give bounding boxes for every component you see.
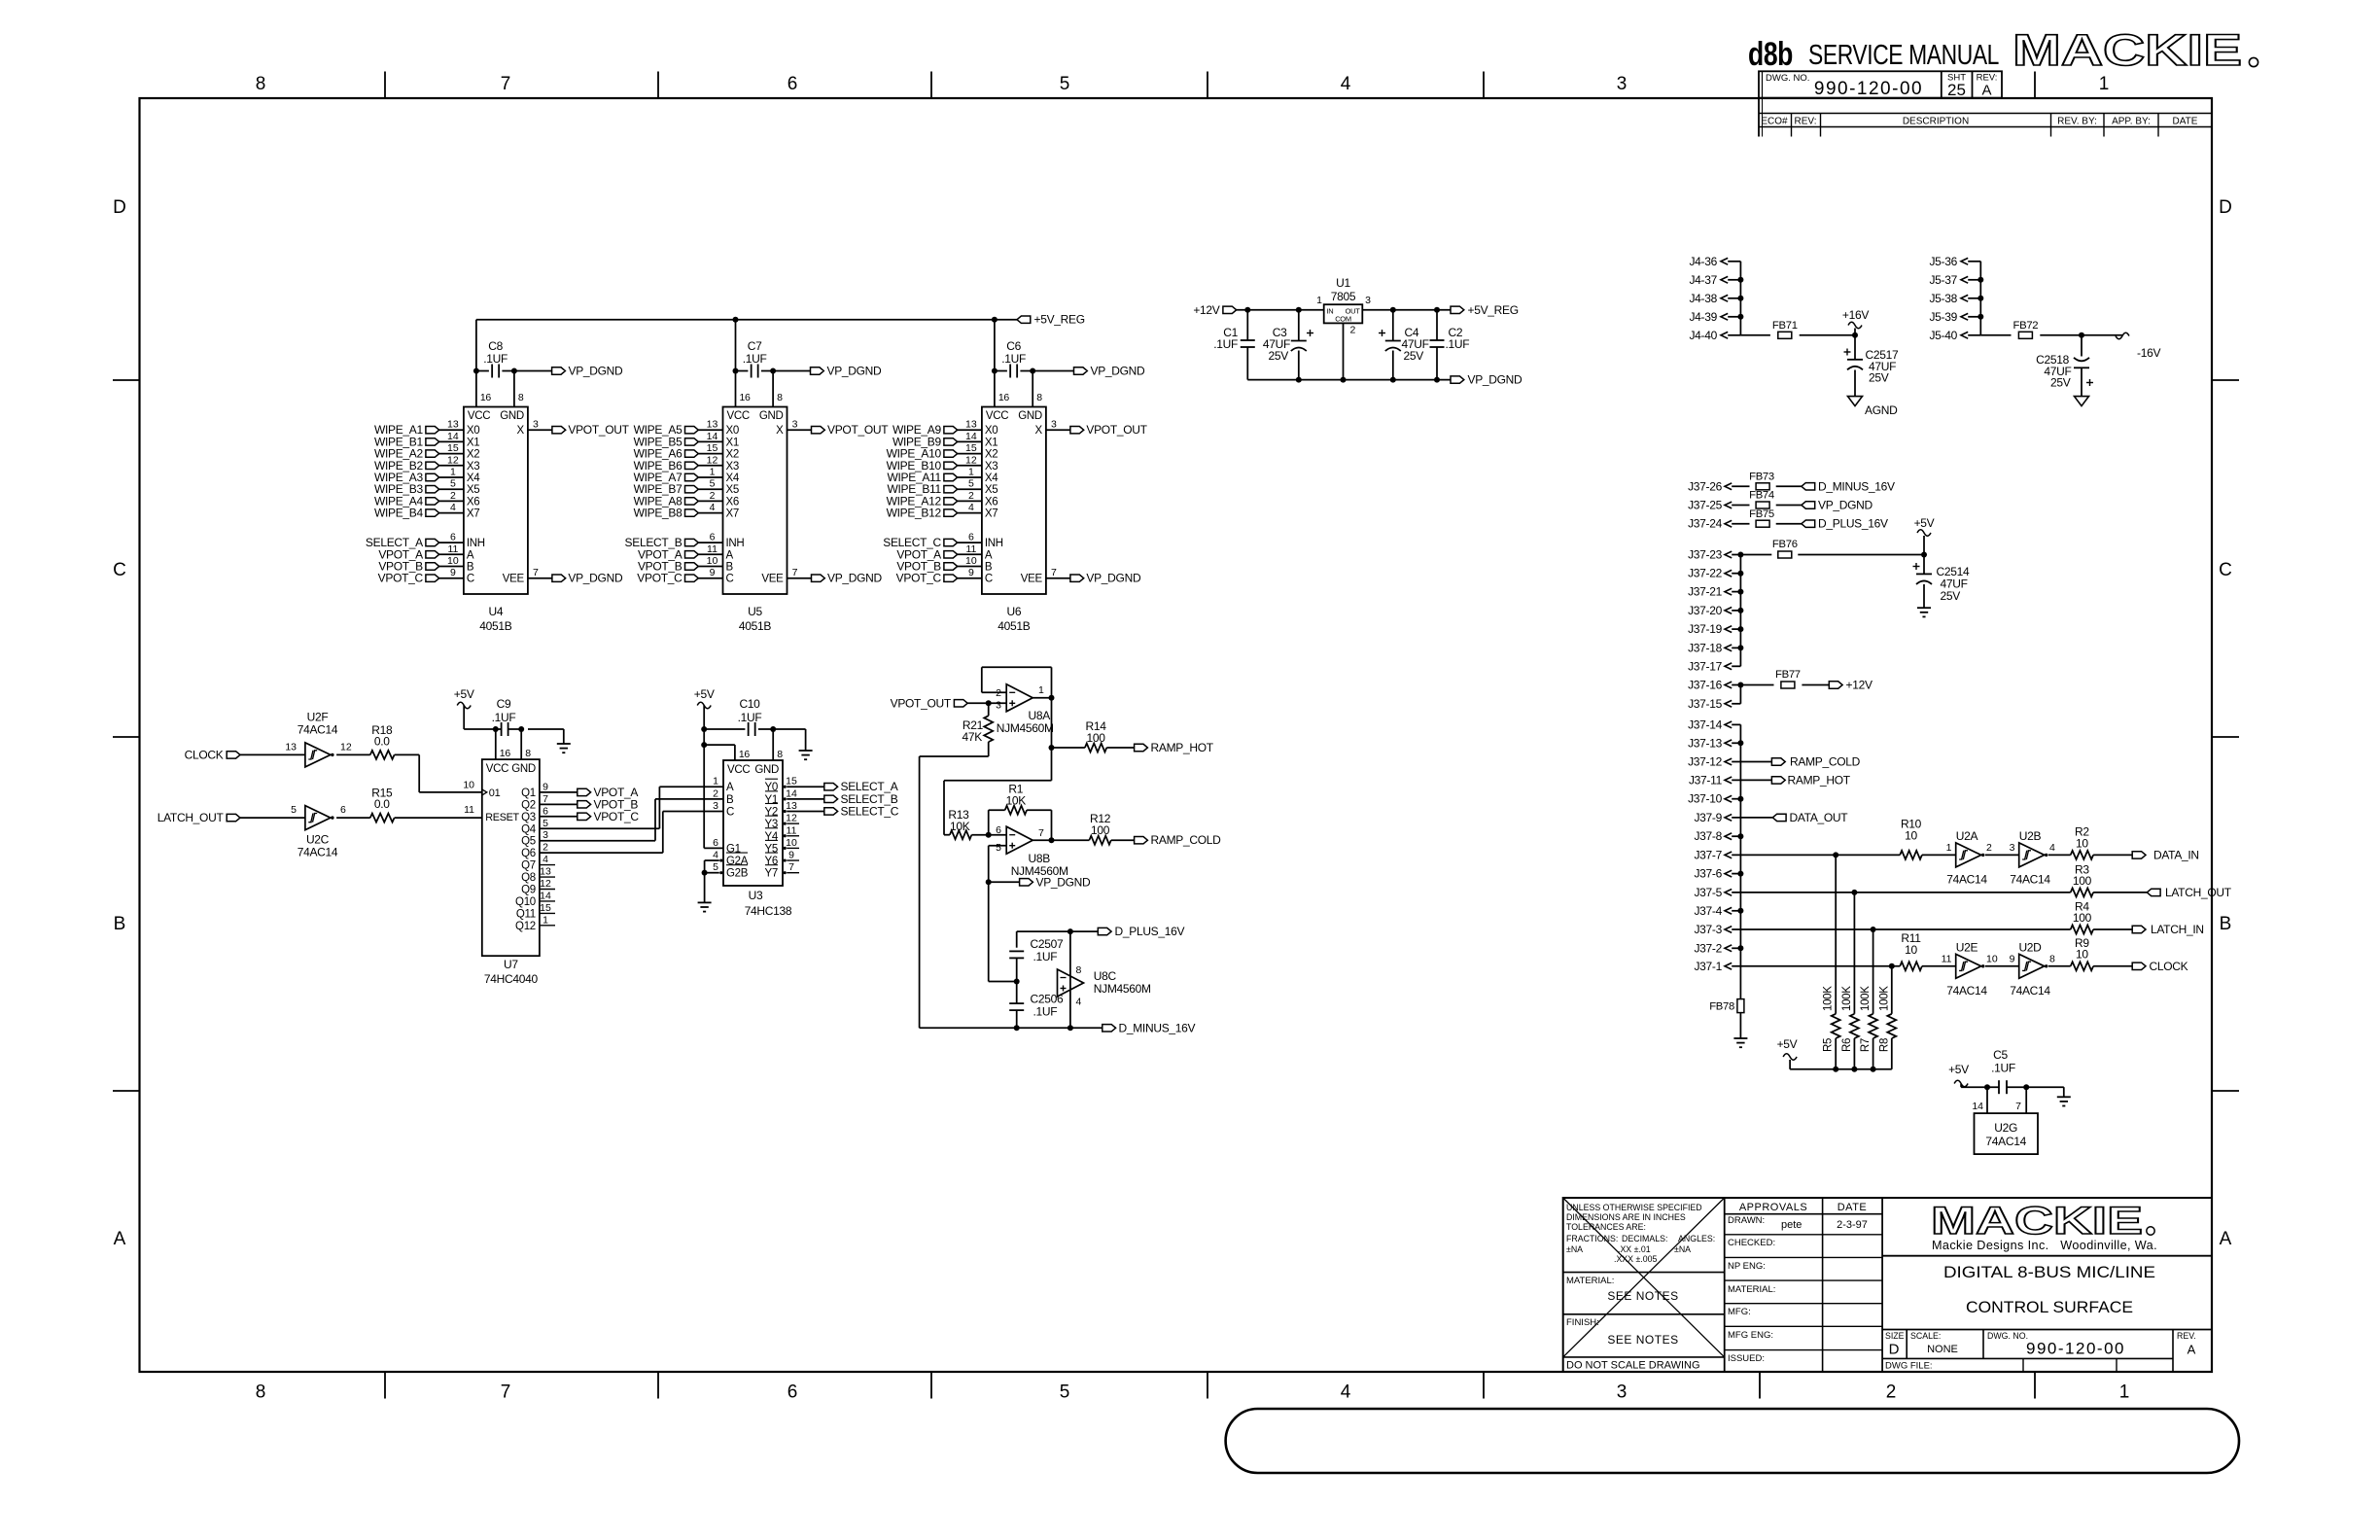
svg-text:REV. BY:: REV. BY: [2057,117,2097,127]
svg-text:U6: U6 [1007,605,1022,618]
node VP_DGND tag at C7 [773,370,810,372]
svg-text:X0: X0 [726,425,739,437]
svg-text:1: 1 [968,467,974,478]
wire U1 OUT to +5V_REG [1362,309,1451,311]
svg-text:6: 6 [542,805,548,817]
node RAMP_COLD tag [1111,839,1135,841]
svg-text:X3: X3 [467,461,479,472]
regulator U1 7805 [1324,304,1363,323]
junction at U2G pin7 [2023,1084,2029,1090]
svg-text:15: 15 [965,442,977,454]
node RAMP_HOT tag at J37-11 [1732,779,1771,781]
svg-text:10K: 10K [1006,794,1027,808]
svg-text:J37-22: J37-22 [1688,567,1723,580]
wire U8A out to RAMP_HOT and R13 [1051,698,1053,781]
svg-text:FB76: FB76 [1772,539,1798,550]
wire U3 G1 to +5V [704,847,723,849]
svg-text:7: 7 [792,567,798,578]
node D_MINUS_16V tag [1102,1025,1116,1032]
svg-text:IN: IN [1327,307,1334,316]
svg-text:25: 25 [1947,81,1966,99]
ground at FB78 [1739,1012,1741,1038]
svg-text:2-3-97: 2-3-97 [1837,1219,1868,1231]
svg-text:11: 11 [1942,953,1952,964]
svg-text:INH: INH [467,538,485,549]
svg-text:4051B: 4051B [997,619,1030,633]
svg-text:VP_DGND: VP_DGND [827,365,883,378]
svg-text:Q7: Q7 [521,860,536,872]
svg-text:Y7: Y7 [765,868,778,880]
svg-text:47K: 47K [962,730,983,744]
svg-text:8: 8 [256,74,266,94]
svg-text:4051B: 4051B [479,619,511,633]
svg-text:1: 1 [1038,684,1044,696]
capacitor C6 [995,370,1007,372]
svg-text:C: C [2219,560,2232,580]
svg-text:1: 1 [2119,1382,2130,1403]
svg-text:4: 4 [710,502,716,513]
svg-text:DECIMALS:: DECIMALS: [1622,1234,1667,1243]
node D_PLUS_16V tag [1098,927,1111,934]
svg-text:MATERIAL:: MATERIAL: [1728,1284,1775,1295]
svg-text:7: 7 [542,793,548,805]
svg-text:VP_DGND: VP_DGND [1818,499,1873,512]
resistor R11 10 [1900,962,1922,970]
junction at R8 column [1889,963,1895,969]
svg-text:Q8: Q8 [521,872,536,884]
svg-text:FRACTIONS:: FRACTIONS: [1566,1234,1618,1243]
wire U8B pin5 to VP_DGND [989,845,1006,847]
wire LATCH_OUT to U2C [240,817,305,819]
svg-text:VCC: VCC [727,410,750,422]
capacitor C2 [1436,310,1438,340]
svg-text:5: 5 [713,861,718,873]
svg-text:990-120-00: 990-120-00 [1814,79,1923,99]
resistor R15 0.0 [336,817,370,819]
capacitor C8 [476,370,489,372]
svg-text:J37-18: J37-18 [1688,641,1723,654]
svg-text:3: 3 [792,419,798,431]
revision table header [1758,98,1760,137]
svg-text:6: 6 [450,532,456,543]
svg-text:15: 15 [707,442,718,454]
svg-text:NJM4560M: NJM4560M [997,721,1054,735]
svg-text:D: D [1889,1342,1900,1358]
svg-text:100: 100 [2073,874,2092,888]
gate U2G 74AC14 power [1986,1087,1988,1113]
svg-text:U2A: U2A [1956,829,1978,843]
junction +5V_REG at U6 [992,317,997,323]
svg-text:GND: GND [1018,410,1042,422]
svg-text:0.0: 0.0 [374,797,390,811]
svg-text:INH: INH [985,538,1003,549]
svg-text:DATE: DATE [1837,1202,1868,1213]
junction at U8B pin6 [986,832,992,838]
svg-text:B: B [985,562,993,574]
svg-text:8: 8 [777,392,783,403]
wire U7 Q6 to U3 C [540,852,663,854]
junction at U8C V- [1067,1025,1073,1031]
resistor R14 100 [1052,747,1085,749]
wire +5V to C5 and U2G [1961,1086,1999,1088]
svg-text:DIGITAL 8-BUS MIC/LINE: DIGITAL 8-BUS MIC/LINE [1943,1263,2155,1281]
svg-text:D: D [113,197,126,218]
node VP_DGND tag at U8B [989,881,1020,883]
node RAMP_COLD tag at J37-12 [1732,761,1771,763]
svg-text:SERVICE MANUAL: SERVICE MANUAL [1808,40,1999,71]
bottom cartouche [1226,1409,2239,1473]
svg-text:+16V: +16V [1842,308,1869,322]
svg-text:4: 4 [450,502,456,513]
svg-text:B: B [726,562,734,574]
svg-text:CHECKED:: CHECKED: [1728,1238,1775,1248]
svg-text:X: X [1035,425,1043,437]
svg-text:Y5: Y5 [765,843,778,855]
svg-text:2: 2 [1986,842,1992,854]
svg-text:12: 12 [447,454,459,466]
svg-text:CLOCK: CLOCK [2150,960,2188,973]
svg-text:.XXX ±.005: .XXX ±.005 [1614,1254,1658,1264]
wire U7 Q5 to U3 B [540,840,655,842]
svg-text:J4-38: J4-38 [1689,292,1717,305]
svg-text:VPOT_C: VPOT_C [896,572,942,585]
svg-text:A: A [2220,1229,2232,1249]
svg-text:U2D: U2D [2018,941,2042,955]
resistor R2 10 [2048,854,2071,856]
svg-text:J37-2: J37-2 [1694,941,1722,955]
svg-text:9: 9 [968,567,974,578]
svg-text:J37-21: J37-21 [1688,585,1723,599]
svg-text:2: 2 [710,490,716,502]
wire D_MINUS_16V rail [920,1027,1102,1029]
junction at R21 top [986,700,992,706]
svg-text:R5: R5 [1823,1038,1835,1052]
svg-text:1: 1 [713,776,718,787]
node DATA_OUT tag at J37-9 [1732,817,1772,819]
svg-text:C: C [985,574,993,585]
svg-text:D_PLUS_16V: D_PLUS_16V [1115,925,1185,938]
junction +5V_REG at U5 [733,317,739,323]
svg-text:J37-1: J37-1 [1694,960,1722,973]
svg-text:AGND: AGND [1865,403,1898,417]
power symbol +5V at pull-ups [1789,1060,1791,1069]
svg-text:1: 1 [2099,74,2110,94]
wire U7 Q3 to VPOT_C [540,816,577,818]
svg-text:4: 4 [1076,997,1082,1008]
junction at R7 column [1871,927,1876,932]
svg-text:-16V: -16V [2137,346,2160,360]
svg-text:Y1: Y1 [765,794,778,806]
analog mux U4 4051B [464,407,528,595]
svg-text:X7: X7 [985,508,997,520]
resistor R1 10K feedback [988,810,990,835]
node DATA_IN tag [2093,854,2132,856]
svg-text:FB77: FB77 [1775,669,1801,681]
resistor R13 10K [950,830,972,839]
ground at C9 [563,729,565,744]
svg-text:74AC14: 74AC14 [2010,984,2050,997]
svg-text:13: 13 [707,419,718,431]
svg-text:U1: U1 [1336,276,1350,290]
capacitor C7 [736,370,749,372]
svg-text:U2C: U2C [306,833,330,847]
svg-text:+12V: +12V [1193,303,1219,317]
node LATCH_IN tag [2093,928,2132,930]
svg-text:J5-37: J5-37 [1929,273,1957,287]
svg-text:ISSUED:: ISSUED: [1728,1353,1765,1364]
svg-text:4051B: 4051B [739,619,771,633]
wire J37-3 to R4 [1732,928,2071,930]
svg-text:MACKIE: MACKIE [1931,1200,2143,1242]
svg-text:5: 5 [1060,74,1070,94]
svg-text:5: 5 [450,478,456,490]
svg-text:74AC14: 74AC14 [297,723,338,737]
svg-text:11: 11 [965,543,976,555]
svg-text:8: 8 [525,748,531,759]
svg-text:J37-12: J37-12 [1688,755,1723,769]
svg-text:8: 8 [1036,392,1042,403]
svg-text:.1UF: .1UF [1213,337,1238,351]
svg-text:VCC: VCC [986,410,1008,422]
svg-text:VEE: VEE [761,574,784,585]
svg-text:4: 4 [542,854,548,865]
svg-text:DESCRIPTION: DESCRIPTION [1903,117,1969,127]
svg-text:74AC14: 74AC14 [2010,873,2050,887]
svg-text:X: X [776,425,784,437]
svg-text:VP_DGND: VP_DGND [1091,365,1146,378]
svg-text:TOLERANCES ARE:: TOLERANCES ARE: [1566,1222,1646,1232]
svg-text:12: 12 [965,454,977,466]
node +5V_REG tag [1017,316,1031,323]
svg-text:C: C [467,574,474,585]
power symbol -16V [2116,332,2129,339]
node VP_DGND tag at C8 [514,370,552,372]
svg-text:6: 6 [787,1382,798,1403]
svg-text:DIMENSIONS ARE IN INCHES: DIMENSIONS ARE IN INCHES [1566,1212,1686,1222]
wire D_PLUS_16V rail [1017,930,1099,932]
wire U3 G2A G2B to ground [719,858,722,861]
ferrite bead FB71 [1740,334,1770,336]
junction at J37-16 bus [1737,682,1743,688]
op-amp U8A NJM4560M [1006,684,1032,712]
svg-text:12: 12 [340,741,352,752]
svg-text:16: 16 [740,392,752,403]
svg-text:VP_DGND: VP_DGND [1468,373,1523,387]
svg-text:U2B: U2B [2019,829,2042,843]
svg-text:LATCH_IN: LATCH_IN [2151,923,2204,936]
svg-text:APPROVALS: APPROVALS [1739,1202,1807,1213]
svg-text:12: 12 [707,454,718,466]
svg-text:U2E: U2E [1956,941,1978,955]
svg-text:APP. BY:: APP. BY: [2112,117,2151,127]
svg-text:J5-39: J5-39 [1929,310,1957,324]
svg-text:+5V_REG: +5V_REG [1468,303,1519,317]
svg-text:J5-40: J5-40 [1929,329,1957,342]
capacitor C2518 47UF [2081,335,2082,357]
node D_MINUS_16V tag at FB73 [1776,485,1802,487]
svg-text:DRAWN:: DRAWN: [1728,1215,1765,1226]
node VPOT_OUT input tag [954,700,967,707]
svg-text:7: 7 [2015,1101,2021,1112]
svg-text:J4-36: J4-36 [1689,255,1717,268]
ferrite bead FB78 [1737,999,1744,1013]
svg-text:J37-23: J37-23 [1688,548,1723,562]
svg-text:4: 4 [1341,1382,1351,1403]
resistor R3 100 [2071,888,2093,896]
ground at U3 G2B [698,901,712,903]
svg-text:4: 4 [968,502,974,513]
node +12V tag [1223,306,1237,313]
svg-text:SIZE: SIZE [1885,1331,1905,1341]
pull-up resistors R5 R6 R7 R8 100K [1835,855,1837,1013]
svg-text:DATE: DATE [2173,117,2198,127]
svg-text:DATA_OUT: DATA_OUT [1790,811,1849,824]
svg-text:.1UF: .1UF [1033,1005,1058,1019]
wire J37-1 to R11 [1732,965,1900,967]
svg-text:LATCH_OUT: LATCH_OUT [157,811,225,824]
svg-text:CONTROL SURFACE: CONTROL SURFACE [1966,1298,2133,1316]
svg-text:MACKIE: MACKIE [2012,25,2242,75]
inverter U2E 74AC14 [1922,965,1956,967]
svg-text:15: 15 [786,776,797,787]
svg-text:01: 01 [489,787,501,799]
svg-text:+5V_REG: +5V_REG [1034,313,1085,327]
capacitor C5 [1998,1080,2000,1094]
wire FB76 to +5V [1798,554,1924,556]
svg-text:15: 15 [447,442,459,454]
svg-text:FB74: FB74 [1749,490,1774,502]
svg-text:J37-11: J37-11 [1689,773,1723,787]
node VPOT_B tag [577,801,591,808]
svg-text:X5: X5 [467,484,479,496]
svg-text:MATERIAL:: MATERIAL: [1566,1276,1614,1286]
svg-text:WIPE_B8: WIPE_B8 [634,507,683,520]
capacitor C2514 47UF [1923,555,1925,575]
resistor R4 100 [2071,926,2093,934]
svg-text:11: 11 [447,543,458,555]
svg-text:A: A [1981,83,1991,99]
svg-text:8: 8 [2049,953,2055,964]
svg-text:CLOCK: CLOCK [185,748,224,761]
svg-text:B: B [726,794,734,806]
svg-text:C2507: C2507 [1031,937,1064,951]
svg-text:U7: U7 [504,958,518,971]
wire pull-up +5V rail [1790,1068,1892,1070]
svg-text:6: 6 [710,532,716,543]
svg-text:.XX ±.01: .XX ±.01 [1618,1244,1651,1254]
svg-text:X6: X6 [985,496,997,507]
svg-text:4: 4 [2049,842,2055,854]
svg-text:J37-3: J37-3 [1694,923,1722,936]
svg-text:4: 4 [1341,74,1351,94]
svg-text:U2F: U2F [307,711,329,724]
svg-text:Y4: Y4 [765,831,779,843]
svg-text:10: 10 [2076,948,2088,962]
wire U3 Y1 to SELECT_B [787,798,824,800]
svg-text:X1: X1 [985,437,997,448]
svg-text:X7: X7 [726,508,739,520]
svg-text:Y0: Y0 [765,782,778,793]
svg-text:6: 6 [996,824,1001,836]
svg-text:LATCH_OUT: LATCH_OUT [2165,886,2232,899]
svg-text:Q2: Q2 [521,799,536,811]
svg-text:5: 5 [1060,1382,1070,1403]
svg-text:6: 6 [968,532,974,543]
ferrite bead FB74 [1732,505,1749,507]
ferrite bead FB73 [1732,485,1749,487]
svg-text:FB71: FB71 [1772,320,1798,332]
svg-text:2: 2 [968,490,974,502]
wire U7 Q1 to VPOT_A [540,791,577,793]
node CLOCK tag [2093,965,2132,967]
resistor R10 10 [1900,851,1922,859]
svg-text:RAMP_COLD: RAMP_COLD [1790,755,1861,769]
svg-text:5: 5 [710,478,716,490]
svg-text:B: B [2220,914,2232,934]
svg-text:NJM4560M: NJM4560M [1094,982,1151,996]
svg-text:U5: U5 [748,605,762,618]
svg-text:25V: 25V [1404,349,1424,363]
svg-text:COM: COM [1335,315,1351,324]
svg-text:1: 1 [450,467,456,478]
svg-text:Y6: Y6 [765,856,778,867]
wire U3 Y0 to SELECT_A [787,786,824,787]
svg-text:VPOT_OUT: VPOT_OUT [1086,423,1147,437]
svg-text:C: C [113,560,126,580]
svg-text:7: 7 [788,861,794,873]
op-amp U8C NJM4560M power symbol [1069,931,1071,1028]
node VP_DGND tag at FB74 [1776,505,1802,507]
node SELECT_A tag [824,784,838,790]
svg-text:C2506: C2506 [1031,993,1064,1006]
svg-text:GND: GND [511,763,536,775]
svg-text:9: 9 [710,567,716,578]
svg-text:3: 3 [1365,295,1371,306]
junction at C2506 [1014,1025,1020,1031]
svg-text:VPOT_C: VPOT_C [594,810,640,823]
svg-text:Q4: Q4 [521,823,537,835]
svg-text:J37-20: J37-20 [1688,604,1723,617]
svg-text:WIPE_B4: WIPE_B4 [374,507,424,520]
wire +5V to U7 VCC and C9 [464,728,501,730]
svg-text:VCC: VCC [727,764,750,776]
svg-text:X1: X1 [467,437,479,448]
svg-text:X4: X4 [467,472,480,484]
svg-text:INH: INH [726,538,745,549]
svg-text:A: A [114,1229,126,1249]
svg-text:J4-37: J4-37 [1689,273,1717,287]
svg-text:J5-38: J5-38 [1929,292,1957,305]
junction U8B output [1032,839,1051,841]
svg-text:C9: C9 [497,697,511,711]
node SELECT_C tag [824,808,838,815]
svg-text:14: 14 [786,787,797,799]
svg-text:14: 14 [540,890,551,901]
svg-text:J37-25: J37-25 [1688,499,1723,512]
svg-text:14: 14 [447,431,459,442]
svg-text:X: X [517,425,525,437]
svg-text:FB75: FB75 [1749,508,1774,520]
svg-text:10K: 10K [950,820,970,833]
svg-text:X2: X2 [726,449,739,461]
junction +5V node at C2514 [1921,552,1927,558]
svg-text:NONE: NONE [1927,1344,1958,1355]
svg-text:16: 16 [500,748,511,759]
svg-text:8: 8 [777,749,783,760]
svg-text:14: 14 [707,431,718,442]
wire CLOCK to U2F [240,753,305,755]
svg-text:J4-40: J4-40 [1689,329,1717,342]
